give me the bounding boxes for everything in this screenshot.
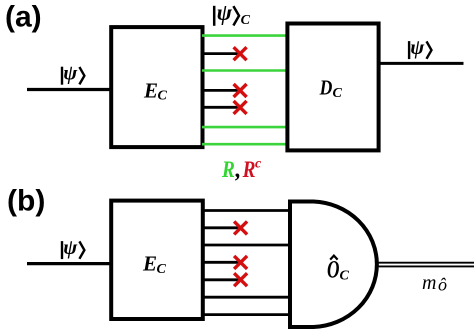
- node |psi> input a: [62, 60, 84, 84]
- svg-text:m: m: [422, 272, 436, 294]
- svg-text:ψ: ψ: [63, 60, 78, 84]
- measurement gate O_C (D-shape): [290, 202, 377, 328]
- wire a6 green: [202, 126, 288, 129]
- svg-text:D: D: [319, 77, 333, 100]
- node |psi> input b: [62, 235, 84, 259]
- svg-text:C: C: [333, 86, 343, 101]
- svg-text:,: ,: [235, 157, 242, 182]
- svg-text:O: O: [327, 255, 340, 283]
- svg-text:ψ: ψ: [217, 0, 233, 25]
- svg-text:C: C: [340, 269, 350, 284]
- wire a4 black erased: [202, 89, 240, 92]
- erasure X a5: [234, 101, 247, 114]
- wire a1 green: [202, 34, 288, 37]
- wire a3 green: [202, 69, 288, 72]
- wire b6: [202, 296, 291, 299]
- svg-text:R: R: [242, 156, 256, 182]
- erasure X b2: [234, 221, 247, 234]
- encoder E_C box (b): [111, 201, 203, 319]
- wire b5 erased: [202, 278, 240, 281]
- node |psi> output a: [409, 35, 431, 59]
- wire b2 erased: [202, 226, 240, 229]
- svg-text:c: c: [255, 156, 262, 171]
- erasure X b4: [234, 256, 247, 269]
- wire b7: [202, 313, 291, 316]
- wire b1: [202, 209, 291, 212]
- double classical wire: [378, 262, 474, 264]
- wire b4 erased: [202, 261, 240, 264]
- wire a5 black erased: [202, 106, 240, 109]
- svg-text:C: C: [157, 262, 167, 277]
- svg-text:ψ: ψ: [410, 35, 425, 59]
- node |psi>_C label: [214, 0, 250, 28]
- encoder E_C box (a): [111, 27, 202, 147]
- wire a2 black erased: [202, 52, 240, 55]
- erasure X a2: [234, 47, 247, 60]
- erasure X a4: [234, 84, 247, 97]
- svg-text:R: R: [221, 156, 235, 182]
- wire output a: [379, 62, 464, 65]
- svg-text:E: E: [143, 79, 158, 103]
- wire input a: [27, 88, 113, 91]
- decoder D_C box (a): [287, 24, 378, 151]
- svg-text:C: C: [158, 89, 168, 104]
- svg-text:(a): (a): [5, 1, 42, 34]
- wire b3: [202, 244, 291, 247]
- wire a7 green: [202, 143, 288, 146]
- svg-text:ψ: ψ: [63, 235, 78, 259]
- svg-text:(b): (b): [7, 185, 45, 218]
- svg-text:ô: ô: [438, 275, 447, 295]
- svg-text:C: C: [241, 13, 251, 28]
- svg-text:E: E: [142, 252, 157, 276]
- wire input b: [27, 262, 113, 265]
- erasure X b5: [234, 273, 247, 286]
